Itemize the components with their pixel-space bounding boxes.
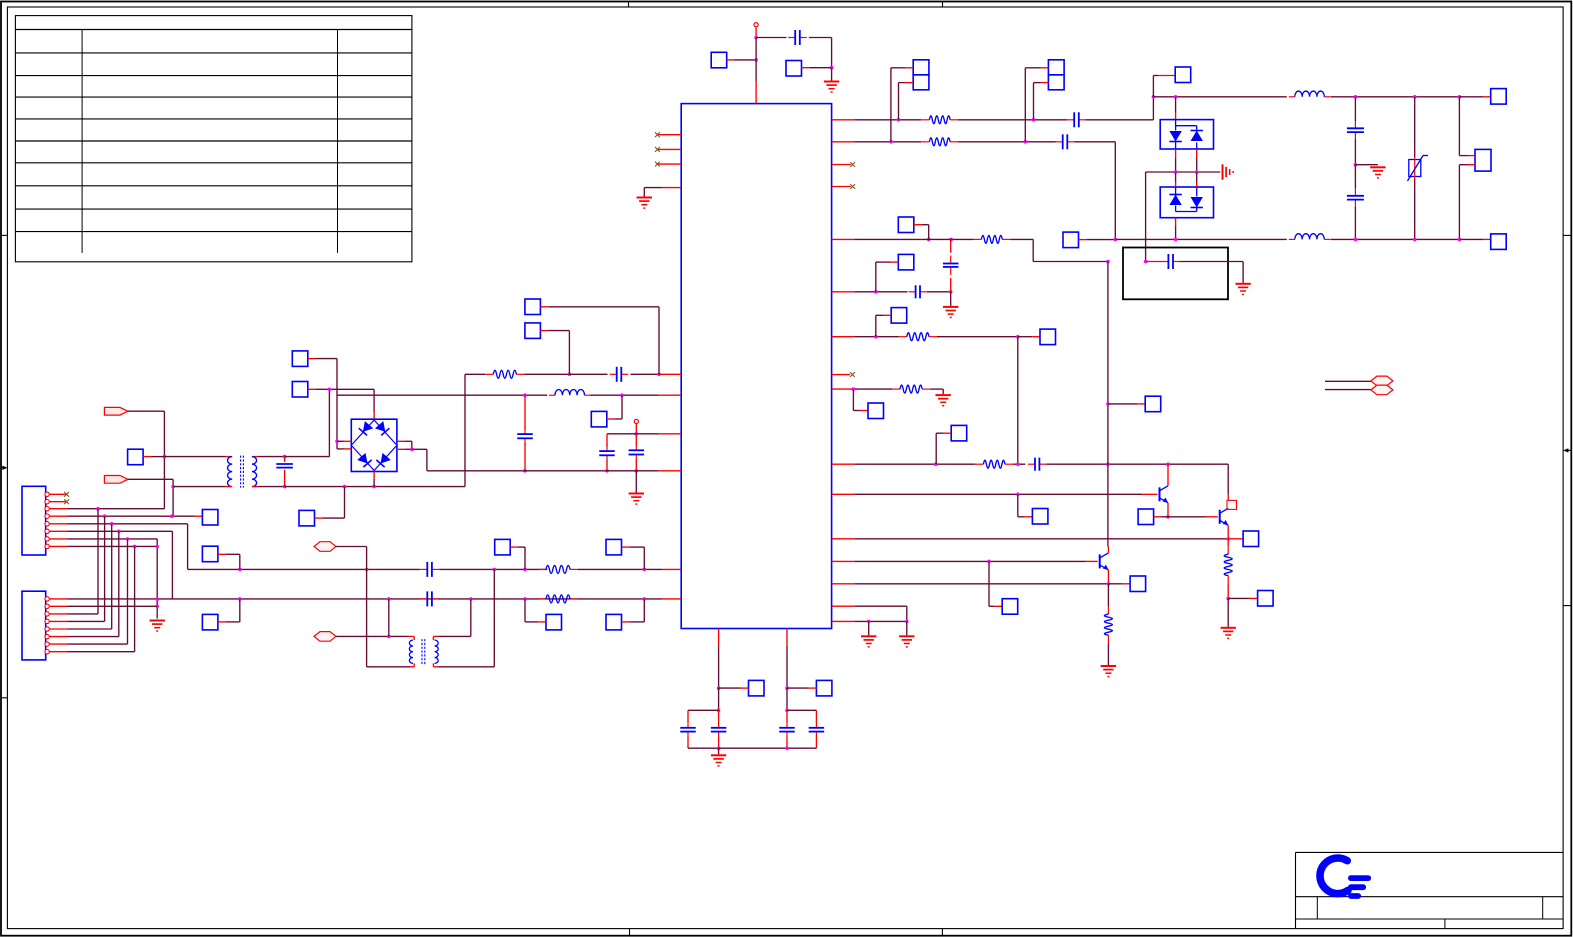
pin stub <box>832 374 850 376</box>
pin stub <box>1228 538 1243 540</box>
pin stub <box>49 620 67 622</box>
net rail <box>1153 96 1286 98</box>
wire <box>591 394 659 396</box>
Q3 base stub <box>1086 560 1098 562</box>
junction <box>1226 597 1230 601</box>
pin stub <box>644 188 681 197</box>
junction <box>568 373 572 377</box>
no-connect <box>655 162 660 167</box>
bridge rectifier BR1 <box>351 419 397 471</box>
wire <box>284 457 286 462</box>
junction <box>620 393 624 397</box>
capacitor C20 <box>809 721 825 739</box>
no-connect <box>655 132 660 137</box>
revision table <box>15 16 412 262</box>
pad TP20 <box>1048 75 1064 90</box>
ground <box>936 395 951 406</box>
wire <box>1325 389 1371 391</box>
pad TP11 <box>202 546 218 562</box>
junction <box>1174 238 1178 242</box>
zone tick bottom <box>941 929 943 936</box>
wire <box>876 315 891 336</box>
wire J2-3 <box>68 613 99 615</box>
junction <box>155 545 159 549</box>
wire <box>1175 97 1177 120</box>
wire <box>1196 149 1198 172</box>
wire <box>427 470 659 472</box>
bus weave wire <box>127 539 129 644</box>
wire <box>950 239 952 252</box>
wire <box>337 394 547 396</box>
ground <box>861 636 876 647</box>
wire <box>1108 403 1145 405</box>
pin stub <box>832 583 855 585</box>
wire <box>718 646 720 688</box>
connector J3 <box>1475 149 1491 171</box>
pin stub <box>659 394 682 396</box>
wire <box>802 67 832 69</box>
wire <box>1325 380 1371 382</box>
junction <box>469 597 473 601</box>
junction <box>1166 462 1170 466</box>
wire <box>989 561 1002 606</box>
wire <box>958 119 1067 121</box>
wire <box>854 606 907 621</box>
zone tick top <box>942 2 944 8</box>
net flag AC2 <box>104 476 128 484</box>
wire <box>868 621 870 635</box>
wire <box>218 554 240 569</box>
junction <box>387 597 391 601</box>
diode D6b <box>1191 197 1203 208</box>
wire <box>1168 516 1206 518</box>
zone tick left <box>1 697 7 699</box>
pin stub <box>832 141 855 143</box>
pin circle <box>45 650 49 654</box>
no-connect <box>850 372 855 377</box>
wire <box>927 291 951 293</box>
transistor Q2 <box>1220 508 1229 525</box>
junction <box>1114 238 1118 242</box>
resistor R2 <box>538 565 578 573</box>
diode D6a <box>1169 195 1181 206</box>
T2 leads <box>413 636 434 666</box>
resistor R9 <box>975 460 1013 468</box>
net line1 <box>188 568 421 570</box>
wire <box>1459 97 1475 156</box>
junction <box>1106 260 1110 264</box>
wire <box>687 738 689 749</box>
wire <box>252 486 285 488</box>
wire <box>1331 238 1460 240</box>
wire <box>755 27 757 37</box>
pin stub <box>832 164 851 166</box>
pin stub <box>657 163 681 165</box>
junction <box>96 507 100 511</box>
pad TP26 <box>898 254 914 270</box>
capacitor C18 <box>711 721 727 739</box>
wire <box>854 463 975 465</box>
resistor R5 <box>921 138 958 146</box>
junction <box>117 530 121 534</box>
capacitor C16 <box>1028 458 1046 471</box>
pin stub <box>657 134 681 136</box>
wire <box>164 456 232 458</box>
capacitor C19 <box>779 721 795 739</box>
junction <box>754 58 758 62</box>
no-connect <box>64 499 69 504</box>
resistor R4 <box>921 116 958 124</box>
bridge diode D3 <box>357 453 371 467</box>
wire <box>1354 97 1356 122</box>
wire <box>854 538 1228 540</box>
Q2 emitter <box>1227 525 1229 539</box>
transistor Q3 <box>1100 553 1109 570</box>
junction <box>523 469 527 473</box>
pin circle <box>45 529 49 533</box>
junction <box>635 469 639 473</box>
wire J1-4 <box>68 515 203 517</box>
wire <box>786 646 788 688</box>
bus weave wire <box>118 531 120 636</box>
title block <box>1296 852 1564 928</box>
terminal P2 <box>634 419 638 423</box>
ground <box>1370 167 1385 178</box>
pin stub <box>49 530 67 532</box>
wire <box>465 373 485 375</box>
pin circle <box>45 619 49 623</box>
pin stub <box>1459 238 1490 240</box>
junction <box>283 455 287 459</box>
wire <box>284 470 286 487</box>
wire J1-3 <box>68 508 165 510</box>
wire <box>921 238 973 240</box>
wire J2-2 <box>68 605 158 607</box>
pin stub <box>659 373 681 375</box>
terminal E4 <box>1371 385 1393 395</box>
junction <box>934 462 938 466</box>
wire <box>1175 218 1177 240</box>
wire <box>143 456 164 458</box>
wire <box>936 433 951 464</box>
terminal E2 <box>314 632 336 642</box>
wire <box>173 486 232 488</box>
bus weave wire <box>97 509 99 614</box>
wire <box>786 688 788 710</box>
wire <box>831 68 833 82</box>
pin circle <box>45 514 49 518</box>
wire J2-7 <box>68 643 128 645</box>
pad TP37 <box>1130 576 1146 592</box>
wire J2-5 <box>68 628 112 630</box>
Q2 base stub <box>1206 516 1218 518</box>
net flag AC1 <box>104 407 128 415</box>
junction <box>949 290 953 294</box>
pin stub <box>662 598 681 600</box>
junction <box>238 568 242 572</box>
wire <box>787 710 816 721</box>
pad TP30 <box>951 425 967 441</box>
wire <box>1354 139 1356 165</box>
wire <box>524 443 526 471</box>
wire <box>1017 337 1019 465</box>
wire <box>285 389 330 456</box>
wire <box>906 621 908 635</box>
junction <box>1152 95 1156 99</box>
ground <box>711 755 726 766</box>
junction <box>1106 462 1110 466</box>
pin stub <box>49 501 65 503</box>
pad TP21 <box>1175 67 1191 83</box>
pin stub <box>49 651 67 653</box>
zone tick top <box>628 2 630 8</box>
junction <box>238 597 242 601</box>
ground <box>824 82 839 93</box>
TVS internal <box>1176 187 1197 212</box>
pad TP35 <box>1258 591 1274 607</box>
junction <box>949 238 953 242</box>
wire <box>635 460 637 471</box>
wire <box>631 373 660 375</box>
pin circle <box>45 522 49 526</box>
pin circle <box>45 604 49 608</box>
wire <box>786 710 788 721</box>
bridge diode D4 <box>376 453 390 467</box>
connector J2 <box>22 591 46 660</box>
TVS pack D5 <box>1160 120 1213 149</box>
wire J1-6 <box>68 531 173 599</box>
pin circle <box>45 612 49 616</box>
resistor R11 <box>1104 606 1112 643</box>
wire <box>1175 172 1177 187</box>
pad TP34 <box>1243 531 1259 547</box>
pin stub <box>832 388 855 390</box>
wire <box>854 238 921 240</box>
junction <box>1174 170 1178 174</box>
wire <box>719 747 817 749</box>
wire <box>1354 207 1356 240</box>
wire <box>1107 584 1109 606</box>
collector link <box>1227 500 1237 509</box>
wire <box>719 687 749 689</box>
pin circle <box>45 492 49 496</box>
pin stub <box>786 629 788 647</box>
wire <box>854 560 1085 562</box>
capacitor C2 <box>610 367 629 382</box>
shield box <box>1123 248 1228 300</box>
wire <box>809 38 832 68</box>
wire <box>636 433 658 435</box>
pin circle <box>45 507 49 511</box>
wire <box>876 262 899 292</box>
wire <box>899 83 914 120</box>
net rail2 <box>1115 238 1287 240</box>
terminal E3 <box>1371 376 1393 386</box>
pin circle <box>45 537 49 541</box>
junction <box>889 140 893 144</box>
wire <box>958 141 1056 143</box>
capacitor C3 <box>517 427 533 445</box>
junction <box>1016 335 1020 339</box>
capacitor C17 <box>680 721 696 739</box>
pin stub <box>49 628 67 630</box>
resistor R10 <box>1224 546 1232 583</box>
pin circle <box>45 627 49 631</box>
wire <box>1227 464 1229 500</box>
zone tick right <box>1563 605 1571 607</box>
wire <box>1354 165 1356 189</box>
center arrow left edge <box>1 466 7 470</box>
wire <box>1227 584 1229 599</box>
wire <box>718 748 720 754</box>
capacitor C14 <box>909 285 927 298</box>
bridge right leads <box>397 441 412 449</box>
wire <box>524 395 526 429</box>
net mid rail <box>1146 171 1221 173</box>
junction <box>717 709 721 713</box>
net line2 <box>68 598 663 600</box>
junction <box>1354 163 1358 167</box>
zone tick bottom <box>629 929 631 936</box>
resistor R3 <box>538 595 578 603</box>
junction <box>1226 537 1230 541</box>
junction <box>1354 95 1358 99</box>
pad TP29 <box>868 403 884 419</box>
wire <box>308 359 337 449</box>
wire <box>336 635 413 637</box>
pin stub <box>832 620 855 622</box>
pin stub <box>49 598 67 600</box>
wire <box>308 388 374 390</box>
capacitor C8 <box>420 591 439 606</box>
pad TP23 <box>898 217 914 233</box>
no-connect <box>850 162 855 167</box>
wire <box>1196 172 1198 187</box>
pad TP8 <box>292 351 308 367</box>
junction <box>110 522 114 526</box>
ground <box>1101 666 1116 677</box>
pin stub <box>49 643 67 645</box>
pin stub <box>1459 96 1490 98</box>
wire <box>854 141 921 143</box>
terminal P1 <box>754 23 758 27</box>
bridge left leads <box>337 441 351 449</box>
junction <box>283 485 287 489</box>
wire <box>950 292 952 306</box>
wire <box>854 336 899 338</box>
wire <box>815 738 817 749</box>
ground <box>1223 164 1234 179</box>
junction <box>874 290 878 294</box>
wire <box>622 599 645 622</box>
pad TP38 <box>749 680 765 696</box>
junction <box>170 514 174 518</box>
pin stub <box>832 463 855 465</box>
pin stub <box>659 433 682 435</box>
pad TP4 <box>525 323 541 339</box>
wire <box>930 389 943 394</box>
junction <box>987 560 991 564</box>
bridge bottom lead <box>373 471 375 486</box>
junction <box>387 635 391 639</box>
junction <box>523 393 527 397</box>
bus weave wire <box>104 516 106 621</box>
pin stub <box>49 515 67 517</box>
wire <box>914 225 929 240</box>
pin stub <box>49 508 67 510</box>
ground <box>899 636 914 647</box>
pad TP25 <box>1491 234 1507 250</box>
pin stub <box>832 493 855 495</box>
wire <box>718 710 720 721</box>
capacitor C7 <box>420 562 439 577</box>
capacitor C5 <box>629 443 645 461</box>
inductor L2 <box>1289 91 1331 97</box>
wire <box>606 460 608 471</box>
transformer T1 <box>228 456 257 488</box>
ground <box>150 621 165 632</box>
wire <box>1153 76 1175 97</box>
transformer T2 <box>409 639 438 664</box>
Q3 collector <box>1107 547 1109 553</box>
pin stub <box>832 560 855 562</box>
junction <box>155 597 159 601</box>
junction <box>1458 238 1462 242</box>
pad TP27 <box>891 308 907 324</box>
transistor Q1 <box>1160 486 1169 503</box>
pin stub <box>832 605 855 607</box>
wire <box>606 434 608 446</box>
wire <box>635 471 637 493</box>
pin circle <box>45 500 49 504</box>
wire <box>891 68 913 142</box>
wire <box>614 395 622 419</box>
wire <box>1227 539 1229 546</box>
pin stub <box>832 538 855 540</box>
wire <box>128 411 164 509</box>
wire <box>1010 239 1108 261</box>
pin stub <box>49 538 67 540</box>
junction <box>643 568 647 572</box>
ground <box>943 307 958 318</box>
wire <box>937 336 1018 338</box>
pin stub <box>49 493 65 495</box>
pad TP15 <box>546 614 562 630</box>
wire <box>252 456 285 458</box>
wire <box>727 59 756 61</box>
wire <box>688 747 719 749</box>
junction <box>365 568 369 572</box>
diode D5b <box>1191 131 1203 142</box>
junction <box>1106 402 1110 406</box>
wire <box>1154 516 1168 518</box>
junction <box>1107 582 1111 586</box>
pin circle <box>45 544 49 548</box>
junction <box>785 746 789 750</box>
junction <box>785 686 789 690</box>
capacitor C9 <box>1067 112 1086 127</box>
wire J1-7 <box>68 539 158 619</box>
wire <box>1107 262 1109 547</box>
pad TP17 <box>913 60 929 75</box>
capacitor C13 <box>1162 254 1179 269</box>
Q3 emitter <box>1107 570 1109 584</box>
pin stub <box>832 186 851 188</box>
wire <box>1146 261 1164 263</box>
wire <box>510 547 525 569</box>
pin circle <box>45 634 49 638</box>
wire <box>854 583 1108 585</box>
